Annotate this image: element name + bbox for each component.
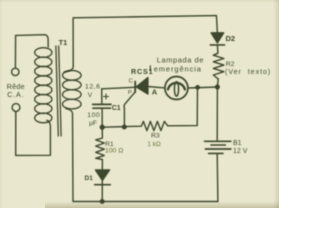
svg-text:12 V: 12 V <box>233 148 248 155</box>
svg-text:C: C <box>129 79 134 85</box>
svg-text:100: 100 <box>87 112 100 119</box>
svg-text:B1: B1 <box>233 140 242 147</box>
svg-text:Lampada de: Lampada de <box>157 55 204 64</box>
svg-text:µF: µF <box>89 120 97 127</box>
svg-text:C.A.: C.A. <box>7 90 24 99</box>
svg-text:P: P <box>128 90 132 96</box>
svg-text:12,6: 12,6 <box>85 84 100 91</box>
svg-text:A: A <box>152 88 158 97</box>
svg-text:100 Ω: 100 Ω <box>105 148 123 155</box>
svg-text:T1: T1 <box>59 38 68 47</box>
svg-text:D2: D2 <box>226 34 236 43</box>
svg-text:D1: D1 <box>85 175 94 182</box>
svg-text:V: V <box>88 92 93 99</box>
svg-text:C1: C1 <box>112 105 121 112</box>
svg-text:RCS1: RCS1 <box>131 67 153 76</box>
svg-text:emergência: emergência <box>154 64 202 73</box>
svg-text:R3: R3 <box>151 133 160 140</box>
svg-text:R2: R2 <box>226 61 235 68</box>
svg-text:1 kΩ: 1 kΩ <box>147 141 161 148</box>
svg-text:(Ver texto): (Ver texto) <box>225 69 271 76</box>
